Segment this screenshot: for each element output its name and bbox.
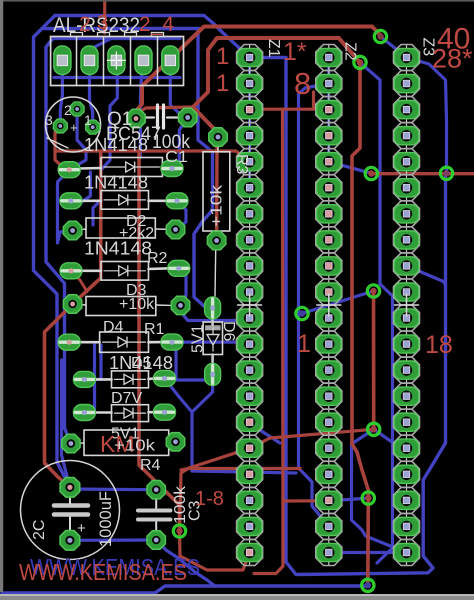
svg-text:2: 2 — [79, 13, 91, 36]
wire blue Z2 pad18 to viaC — [329, 498, 369, 501]
diode D6 pad top — [205, 297, 221, 319]
wire blue Z2 pins1-5 chain — [327, 58, 330, 163]
via VD — [362, 579, 374, 591]
wire red C1 branch — [136, 107, 193, 119]
wire red Q1 pad3 down — [55, 126, 69, 170]
window border top — [0, 0, 474, 2]
svg-text:+: + — [70, 120, 78, 135]
resistor +2k2 pad right — [166, 220, 184, 238]
svg-text:+10k: +10k — [114, 438, 156, 455]
wire red top entry — [103, 2, 106, 33]
svg-text:2_4: 2_4 — [139, 13, 174, 36]
svg-text:18: 18 — [425, 331, 453, 359]
wire red left long — [45, 151, 101, 487]
svg-text:R1: R1 — [144, 321, 165, 338]
svg-text:R3: R3 — [233, 154, 250, 175]
svg-text:R2: R2 — [147, 250, 168, 267]
wire blue top-left to Z1 pin1 — [55, 16, 250, 58]
wire red diag to viaB — [181, 429, 374, 470]
svg-text:3: 3 — [97, 12, 108, 34]
diode D5 pad left — [73, 371, 95, 387]
svg-text:1N4148: 1N4148 — [84, 173, 148, 193]
svg-text:D7V: D7V — [111, 390, 142, 407]
diode D7 pad right — [154, 404, 176, 420]
diode D4 pad right — [161, 334, 183, 350]
wire blue rowG diag — [165, 378, 193, 412]
wire blue block bottom — [54, 76, 180, 79]
capacitor C3 pad top — [147, 481, 165, 499]
wire red Z1 right long — [254, 109, 283, 573]
via V4 — [296, 307, 308, 319]
svg-text:D6: D6 — [220, 321, 237, 342]
wire red inner long — [139, 151, 180, 531]
wire red viaC to viaD — [366, 498, 370, 585]
svg-text:D5: D5 — [131, 355, 152, 372]
wire blue rowE to Z1 pad11 — [181, 305, 250, 320]
wire red top rail lower — [193, 38, 339, 140]
wire blue second horizontal — [44, 29, 213, 313]
svg-text:+10k: +10k — [209, 184, 226, 227]
svg-text:28*: 28* — [432, 44, 473, 74]
via VKM — [173, 525, 185, 537]
svg-text:C1: C1 — [165, 149, 188, 166]
via VC — [362, 492, 374, 504]
svg-text:Z1: Z1 — [265, 39, 282, 58]
wire blue via1 to Z3 pin1 — [381, 37, 407, 58]
wire red row3 stub — [312, 92, 315, 109]
wire blue Z2-Z3 pad20 — [340, 551, 407, 554]
wire red via-KM to Z1 pad20 — [180, 531, 250, 570]
resistor R3 outline — [203, 152, 230, 231]
capacitor C3 plates — [138, 509, 170, 513]
wire blue rowF to Z1 pad12 — [172, 342, 250, 344]
capacitor C2 pad plus — [60, 478, 80, 498]
svg-text:2C: 2C — [31, 520, 48, 540]
transistor Q1 outline — [46, 97, 101, 152]
diode row4 pad right — [168, 260, 190, 276]
wire blue inner-left — [46, 40, 71, 444]
capacitor C2 outline — [21, 461, 120, 560]
svg-text:8: 8 — [294, 66, 311, 101]
capacitor C1 pad right — [179, 108, 197, 126]
wire blue Z1-Z2 channel inner — [299, 84, 329, 527]
diode D4 pad left — [58, 334, 80, 350]
svg-text:1N4148: 1N4148 — [84, 135, 148, 155]
diode row4 pad left — [60, 263, 82, 279]
capacitor C2 pad minus — [60, 531, 80, 551]
via V2 — [354, 56, 366, 68]
wire red mid long — [352, 62, 368, 498]
diode row2 outline — [101, 191, 149, 210]
wire blue rowF down to D6 — [172, 342, 213, 380]
wire red Z1-Z2 row3 — [250, 108, 329, 111]
capacitor C3 pad bottom — [147, 531, 165, 549]
capacitor C1 pad left — [127, 109, 145, 127]
resistor +2k2 outline — [86, 218, 155, 238]
window border left — [0, 0, 3, 592]
resistor +10k pad right — [171, 296, 189, 314]
via VM — [365, 167, 377, 179]
svg-text:1: 1 — [84, 112, 92, 128]
svg-text:1N4148: 1N4148 — [84, 239, 152, 259]
wire red via to right edge — [371, 172, 474, 175]
window border bottom — [0, 594, 474, 596]
wire red top rail upper — [136, 27, 372, 119]
svg-text:1-8: 1-8 — [195, 488, 224, 510]
svg-text:R4: R4 — [140, 457, 161, 474]
svg-text:5V1: 5V1 — [190, 324, 207, 353]
wire blue block pad2 stub — [90, 39, 112, 61]
wire blue Z1 pad15 stub — [252, 425, 280, 443]
capacitor C1 plates — [156, 105, 159, 128]
wire blue row4R — [179, 268, 186, 305]
resistor R3 pad top — [209, 128, 227, 146]
svg-text:+10k: +10k — [119, 296, 155, 313]
transistor Q1 pad 1 — [86, 120, 100, 134]
wire blue Z3 pad9 diag — [407, 266, 446, 285]
diode D6 outline — [203, 322, 222, 355]
wire red R3 inside — [215, 142, 219, 241]
wire red via-KM up — [180, 469, 301, 532]
svg-text:1: 1 — [297, 330, 311, 358]
resistor +10k pad left — [63, 295, 81, 313]
wire blue row2R — [176, 201, 187, 230]
connector Z3 pin header pads 1-20 — [406, 45, 408, 566]
svg-text:1*: 1* — [283, 38, 307, 66]
svg-text:Z2: Z2 — [342, 42, 359, 61]
capacitor C2 plates — [54, 503, 88, 508]
wire blue row2 weave — [71, 172, 91, 203]
connector X1 pad 3 — [108, 46, 125, 75]
connector Z1 pin header pads 1-20 — [249, 45, 251, 566]
wire blue bottom long — [2, 586, 368, 593]
wire red D2L stub — [71, 271, 87, 292]
connector Z1 origin cross — [238, 304, 262, 306]
svg-text:WWW.KEMISA.ES: WWW.KEMISA.ES — [19, 559, 187, 585]
wire blue 5V1 rows — [84, 345, 94, 413]
wire blue D6 bottom down — [192, 375, 296, 474]
wire red row1 rail — [55, 151, 250, 162]
diode D7 outline — [112, 405, 149, 422]
connector Z2 origin cross — [317, 304, 341, 306]
via VE — [440, 167, 452, 179]
diode D1 pad right — [161, 161, 183, 177]
wire red to via2 — [339, 38, 360, 62]
wire red to Z2 pad18 — [283, 499, 329, 502]
svg-text:3: 3 — [45, 112, 53, 128]
wire blue D1L weave — [58, 170, 73, 243]
wire blue C2 to C3 top — [70, 487, 156, 491]
wire blue Z1-Z2 channel outer — [250, 58, 446, 575]
svg-text:1: 1 — [216, 43, 229, 70]
wire blue viaB to Z3 pad16 — [374, 429, 407, 448]
wire blue via2 to Z3 left — [360, 62, 393, 563]
diode D1 outline — [101, 158, 162, 177]
wire blue pad3 down — [110, 63, 117, 130]
via VB — [368, 423, 380, 435]
connector X1 AL-RS232 terminal block outline — [51, 37, 184, 86]
wire blue outer-left — [34, 16, 70, 488]
wire blue Z2 pad5 to via — [329, 162, 372, 174]
transistor Q1 pad 2 — [70, 102, 84, 116]
resistor +10k outline row5 — [86, 297, 156, 316]
svg-text:1: 1 — [216, 70, 229, 97]
diode D4 outline — [100, 332, 149, 352]
diode row4 outline — [101, 262, 149, 281]
diode D7 pad left — [73, 405, 95, 421]
wire red to via1 — [372, 27, 381, 36]
diode D5 outline — [112, 371, 149, 388]
svg-text:1000uF: 1000uF — [96, 491, 115, 547]
connector X1 pad 2 — [81, 46, 98, 75]
wire blue C3 to bottom — [156, 540, 215, 586]
connector X1 pad 5 — [162, 46, 179, 75]
resistor +2k2 pad left — [63, 221, 81, 239]
resistor KM outline — [84, 430, 169, 455]
connector Z2 pin header pads 1-20 — [328, 45, 330, 566]
wire blue Q1 pad2 down — [69, 109, 86, 170]
wire blue pad1 down — [60, 63, 62, 125]
resistor KM pad left — [62, 434, 80, 452]
svg-text:D4: D4 — [103, 319, 124, 336]
wire blue Z1 pins1-6 chain — [248, 58, 251, 189]
wire blue viaB left branch — [352, 429, 407, 552]
wire blue pad5 down — [170, 63, 187, 118]
wire blue V4 to viaA — [302, 291, 374, 314]
diode D1 pad left — [58, 162, 80, 178]
wire blue left mid weave — [93, 130, 110, 225]
connector Z3 origin cross — [395, 304, 419, 306]
connector X1 pad 1 — [54, 46, 71, 75]
via VA — [367, 285, 379, 297]
via V1 — [374, 30, 386, 42]
wire blue C2 to C3 bottom — [70, 538, 156, 541]
wire blue pad4 down — [140, 63, 142, 157]
diode D6 pad bottom — [205, 364, 221, 386]
wire blue D5 row — [84, 345, 101, 379]
wire blue Z3 pin1 to viaE — [407, 58, 447, 174]
wire blue D1R up — [172, 118, 188, 169]
diode row2 pad right — [166, 193, 188, 209]
wire blue pad2 down — [90, 63, 93, 127]
wire blue block top — [54, 37, 180, 40]
svg-text:2: 2 — [64, 102, 72, 118]
resistor R3 via bottom — [207, 231, 225, 249]
connector X1 pad 4 — [135, 46, 152, 75]
diode D5 pad right — [154, 370, 176, 386]
transistor Q1 pad 3 — [53, 119, 67, 133]
wire red viaA to viaB — [372, 291, 376, 429]
wire blue left low — [62, 360, 70, 487]
resistor KM pad right — [166, 433, 184, 451]
diode row2 pad left — [60, 193, 82, 209]
